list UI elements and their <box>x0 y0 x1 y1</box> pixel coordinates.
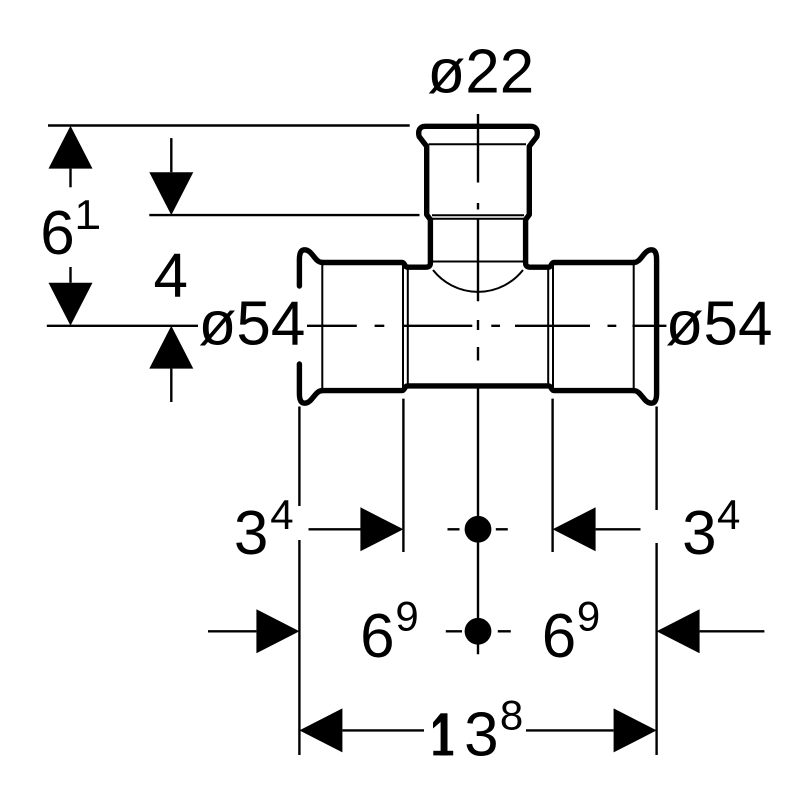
svg-text:ø54: ø54 <box>199 289 306 358</box>
svg-text:6: 6 <box>360 602 394 671</box>
svg-text:9: 9 <box>577 593 600 640</box>
svg-text:3: 3 <box>682 499 716 568</box>
svg-text:9: 9 <box>395 593 418 640</box>
svg-text:3: 3 <box>234 499 268 568</box>
svg-text:8: 8 <box>500 692 523 739</box>
svg-text:3: 3 <box>464 700 498 769</box>
svg-text:4: 4 <box>717 491 740 538</box>
svg-text:4: 4 <box>270 491 293 538</box>
svg-text:ø22: ø22 <box>427 37 534 106</box>
svg-text:1: 1 <box>75 191 98 238</box>
svg-text:ø54: ø54 <box>666 289 773 358</box>
svg-text:4: 4 <box>154 241 188 310</box>
svg-text:6: 6 <box>542 602 576 671</box>
svg-text:6: 6 <box>40 199 74 268</box>
